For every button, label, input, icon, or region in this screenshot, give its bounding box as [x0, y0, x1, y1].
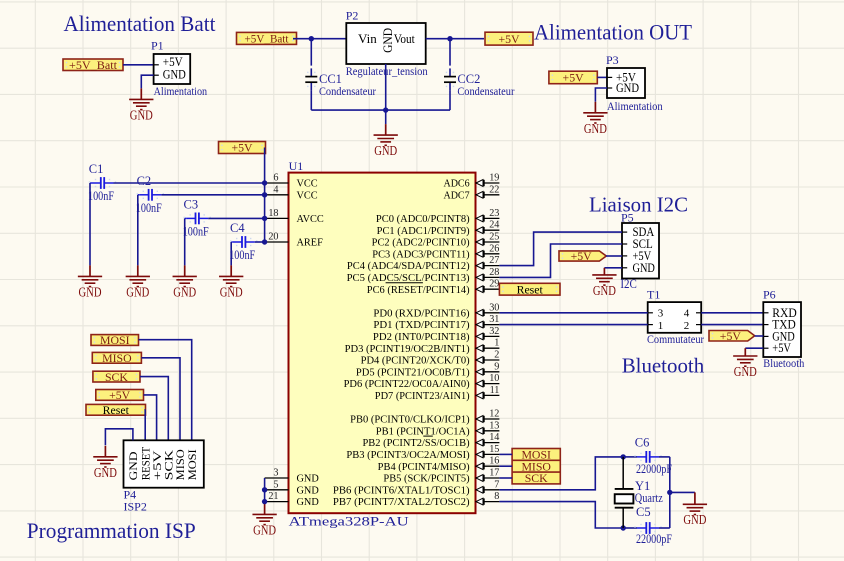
svg-text:GND: GND: [734, 364, 757, 379]
svg-text:PD7 (PCINT23/AIN1): PD7 (PCINT23/AIN1): [375, 391, 470, 402]
svg-text:14: 14: [489, 432, 499, 443]
svg-text:P3: P3: [606, 53, 619, 67]
svg-text:PD1 (TXD/PCINT17): PD1 (TXD/PCINT17): [373, 320, 469, 331]
svg-text:P2: P2: [346, 9, 359, 23]
svg-text:22000pF: 22000pF: [636, 532, 672, 546]
svg-text:18: 18: [268, 208, 278, 219]
svg-text:Regulateur_tension: Regulateur_tension: [346, 64, 428, 78]
svg-text:GND: GND: [593, 283, 616, 298]
svg-text:MOSI: MOSI: [185, 449, 199, 480]
svg-text:ADC7: ADC7: [444, 190, 470, 201]
svg-text:PD2 (INT0/PCINT18): PD2 (INT0/PCINT18): [373, 332, 470, 343]
svg-text:3: 3: [273, 468, 278, 479]
svg-text:ATmega328P-AU: ATmega328P-AU: [289, 514, 409, 528]
svg-text:+5V_Batt: +5V_Batt: [245, 32, 290, 46]
svg-text:7: 7: [494, 479, 499, 490]
svg-text:MISO: MISO: [102, 351, 132, 365]
svg-text:+5V: +5V: [231, 141, 253, 155]
svg-text:25: 25: [489, 232, 499, 243]
svg-text:P6: P6: [763, 288, 776, 302]
svg-text:12: 12: [489, 409, 499, 420]
svg-text:PB6 (PCINT6/XTAL1/TOSC1): PB6 (PCINT6/XTAL1/TOSC1): [333, 485, 470, 496]
svg-text:100nF: 100nF: [136, 201, 162, 215]
svg-text:C3: C3: [184, 198, 199, 212]
svg-text:+5V: +5V: [772, 341, 791, 355]
svg-text:PC2 (ADC2/PCINT10): PC2 (ADC2/PCINT10): [372, 238, 470, 249]
svg-text:GND: GND: [683, 512, 706, 527]
svg-text:GND: GND: [126, 284, 149, 299]
svg-text:16: 16: [489, 456, 499, 467]
svg-text:PC4 (ADC4/SDA/PCINT12): PC4 (ADC4/SDA/PCINT12): [347, 261, 470, 272]
svg-text:26: 26: [489, 243, 499, 254]
svg-text:C1: C1: [89, 162, 104, 176]
svg-text:GND: GND: [94, 465, 117, 480]
svg-text:Alimentation Batt: Alimentation Batt: [64, 11, 216, 36]
svg-text:GND: GND: [633, 261, 656, 275]
svg-text:Bluetooth: Bluetooth: [622, 354, 705, 378]
svg-text:VCC: VCC: [297, 179, 318, 190]
svg-text:PB2 (PCINT2/SS/OC1B): PB2 (PCINT2/SS/OC1B): [363, 438, 470, 449]
svg-text:Vin: Vin: [358, 31, 377, 46]
svg-text:17: 17: [489, 468, 499, 479]
svg-text:1: 1: [658, 320, 664, 332]
svg-text:GND: GND: [173, 284, 196, 299]
svg-text:Commutateur: Commutateur: [647, 332, 704, 346]
svg-text:PD5 (PCINT21/OC0B/T1): PD5 (PCINT21/OC0B/T1): [356, 367, 470, 378]
svg-text:+5V: +5V: [720, 329, 742, 343]
svg-text:13: 13: [489, 420, 499, 431]
svg-text:AVCC: AVCC: [297, 214, 324, 225]
svg-text:GND: GND: [297, 474, 320, 485]
svg-text:ADC6: ADC6: [444, 179, 470, 190]
svg-text:ISP2: ISP2: [124, 500, 147, 514]
svg-text:1: 1: [494, 338, 499, 349]
svg-text:PB1 (PCINT1/OC1A): PB1 (PCINT1/OC1A): [376, 426, 470, 437]
svg-text:4: 4: [273, 184, 278, 195]
svg-text:C4: C4: [230, 221, 245, 235]
svg-text:100nF: 100nF: [229, 248, 255, 262]
svg-text:Reset: Reset: [103, 403, 130, 417]
svg-text:GND: GND: [220, 284, 243, 299]
svg-text:+5V: +5V: [498, 32, 520, 46]
svg-text:GND: GND: [297, 497, 320, 508]
svg-text:GND: GND: [130, 107, 153, 122]
svg-text:Vout: Vout: [394, 31, 415, 46]
svg-text:32: 32: [489, 326, 499, 337]
svg-text:C6: C6: [635, 436, 650, 450]
svg-text:31: 31: [489, 314, 499, 325]
svg-text:23: 23: [489, 208, 499, 219]
svg-text:GND: GND: [163, 67, 186, 81]
svg-text:10: 10: [489, 373, 499, 384]
svg-text:U1: U1: [289, 159, 304, 173]
svg-text:4: 4: [684, 308, 690, 320]
svg-text:28: 28: [489, 267, 499, 278]
svg-text:6: 6: [273, 173, 278, 184]
svg-text:27: 27: [489, 255, 499, 266]
svg-text:T1: T1: [647, 288, 660, 302]
svg-text:MOSI: MOSI: [100, 333, 130, 347]
svg-text:GND: GND: [253, 522, 276, 537]
svg-text:Condensateur: Condensateur: [457, 84, 514, 98]
svg-text:11: 11: [490, 385, 500, 396]
svg-text:C2: C2: [137, 174, 152, 188]
svg-text:PC0 (ADC0/PCINT8): PC0 (ADC0/PCINT8): [376, 214, 470, 225]
svg-text:Alimentation: Alimentation: [607, 99, 663, 113]
svg-text:GND: GND: [297, 485, 320, 496]
svg-text:19: 19: [489, 173, 499, 184]
svg-text:C5: C5: [636, 505, 651, 519]
svg-text:15: 15: [489, 444, 499, 455]
svg-text:GND: GND: [616, 81, 639, 95]
svg-text:PD3 (PCINT19/OC2B/INT1): PD3 (PCINT19/OC2B/INT1): [345, 344, 470, 355]
svg-text:GND: GND: [79, 284, 102, 299]
svg-text:21: 21: [268, 491, 278, 502]
svg-text:24: 24: [489, 220, 499, 231]
svg-text:9: 9: [494, 361, 499, 372]
svg-text:GND: GND: [584, 121, 607, 136]
svg-text:PB3 (PCINT3/OC2A/MOSI): PB3 (PCINT3/OC2A/MOSI): [346, 450, 469, 461]
svg-text:SCK: SCK: [105, 370, 128, 384]
svg-text:PB0 (PCINT0/CLKO/ICP1): PB0 (PCINT0/CLKO/ICP1): [350, 415, 469, 426]
svg-text:29: 29: [489, 279, 499, 290]
svg-text:PD4 (PCINT20/XCK/T0): PD4 (PCINT20/XCK/T0): [361, 356, 470, 367]
svg-text:100nF: 100nF: [183, 224, 209, 238]
svg-text:22000pF: 22000pF: [636, 462, 672, 476]
svg-text:PC3 (ADC3/PCINT11): PC3 (ADC3/PCINT11): [372, 249, 469, 260]
svg-text:PC1 (ADC1/PCINT9): PC1 (ADC1/PCINT9): [377, 226, 470, 237]
svg-text:2: 2: [684, 320, 690, 332]
svg-text:PB5 (SCK/PCINT5): PB5 (SCK/PCINT5): [383, 474, 469, 485]
svg-text:8: 8: [494, 491, 499, 502]
svg-text:Liaison I2C: Liaison I2C: [589, 193, 688, 217]
svg-text:20: 20: [268, 232, 278, 243]
svg-text:2: 2: [494, 350, 499, 361]
svg-text:GND: GND: [374, 143, 397, 158]
svg-text:5: 5: [273, 479, 278, 490]
svg-text:Bluetooth: Bluetooth: [763, 356, 804, 370]
svg-text:PD0 (RXD/PCINT16): PD0 (RXD/PCINT16): [373, 308, 469, 319]
svg-text:+5V_Batt: +5V_Batt: [69, 58, 118, 72]
svg-text:+5V: +5V: [563, 71, 585, 85]
svg-text:30: 30: [489, 302, 499, 313]
svg-text:I2C: I2C: [620, 277, 637, 291]
svg-text:+5V: +5V: [571, 249, 593, 263]
svg-text:Programmation ISP: Programmation ISP: [27, 518, 196, 543]
svg-text:Reset: Reset: [517, 282, 544, 296]
svg-text:PB7 (PCINT7/XTAL2/TOSC2): PB7 (PCINT7/XTAL2/TOSC2): [333, 497, 470, 508]
svg-text:GND: GND: [380, 28, 395, 53]
svg-text:+5V: +5V: [109, 388, 131, 402]
svg-text:100nF: 100nF: [88, 189, 114, 203]
svg-text:PC6 (RESET/PCINT14): PC6 (RESET/PCINT14): [367, 285, 470, 296]
svg-text:3: 3: [658, 308, 664, 320]
svg-text:SCK: SCK: [525, 471, 548, 485]
svg-text:AREF: AREF: [297, 238, 324, 249]
svg-text:22: 22: [489, 184, 499, 195]
svg-text:VCC: VCC: [297, 190, 318, 201]
svg-text:PD6 (PCINT22/OC0A/AIN0): PD6 (PCINT22/OC0A/AIN0): [344, 379, 470, 390]
svg-text:Alimentation: Alimentation: [154, 84, 208, 98]
svg-text:PB4 (PCINT4/MISO): PB4 (PCINT4/MISO): [378, 462, 470, 473]
svg-text:P1: P1: [151, 39, 164, 53]
svg-text:Alimentation OUT: Alimentation OUT: [534, 20, 693, 45]
svg-text:Condensateur: Condensateur: [319, 84, 376, 98]
svg-text:Quartz: Quartz: [635, 491, 663, 505]
